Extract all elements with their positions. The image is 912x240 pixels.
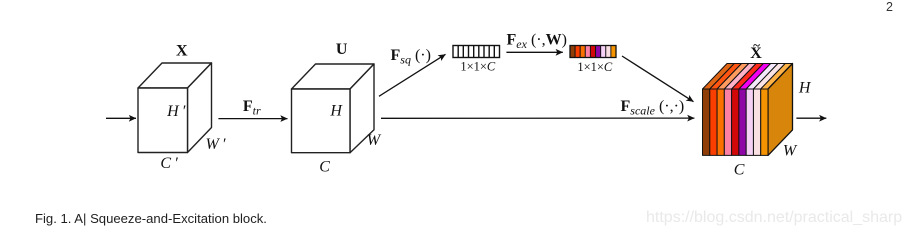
svg-text:H ′: H ′: [166, 103, 186, 120]
svg-text:Ftr: Ftr: [243, 98, 261, 118]
svg-text:U: U: [336, 41, 348, 58]
svg-text:W ′: W ′: [205, 136, 226, 153]
svg-text:C: C: [319, 159, 330, 176]
svg-text:~: ~: [753, 38, 760, 53]
svg-text:X: X: [176, 42, 188, 59]
svg-text:H: H: [798, 79, 812, 96]
svg-text:C: C: [734, 162, 745, 179]
svg-text:W: W: [367, 132, 382, 149]
svg-text:W: W: [783, 143, 798, 160]
svg-text:Fscale (·,·): Fscale (·,·): [621, 98, 685, 118]
svg-text:Fsq (·): Fsq (·): [391, 47, 431, 67]
svg-text:C ′: C ′: [160, 155, 178, 172]
svg-text:Fex (·,W): Fex (·,W): [507, 32, 567, 52]
svg-text:1×1×C: 1×1×C: [577, 60, 613, 74]
svg-text:1×1×C: 1×1×C: [460, 60, 496, 74]
svg-text:H: H: [329, 102, 343, 119]
